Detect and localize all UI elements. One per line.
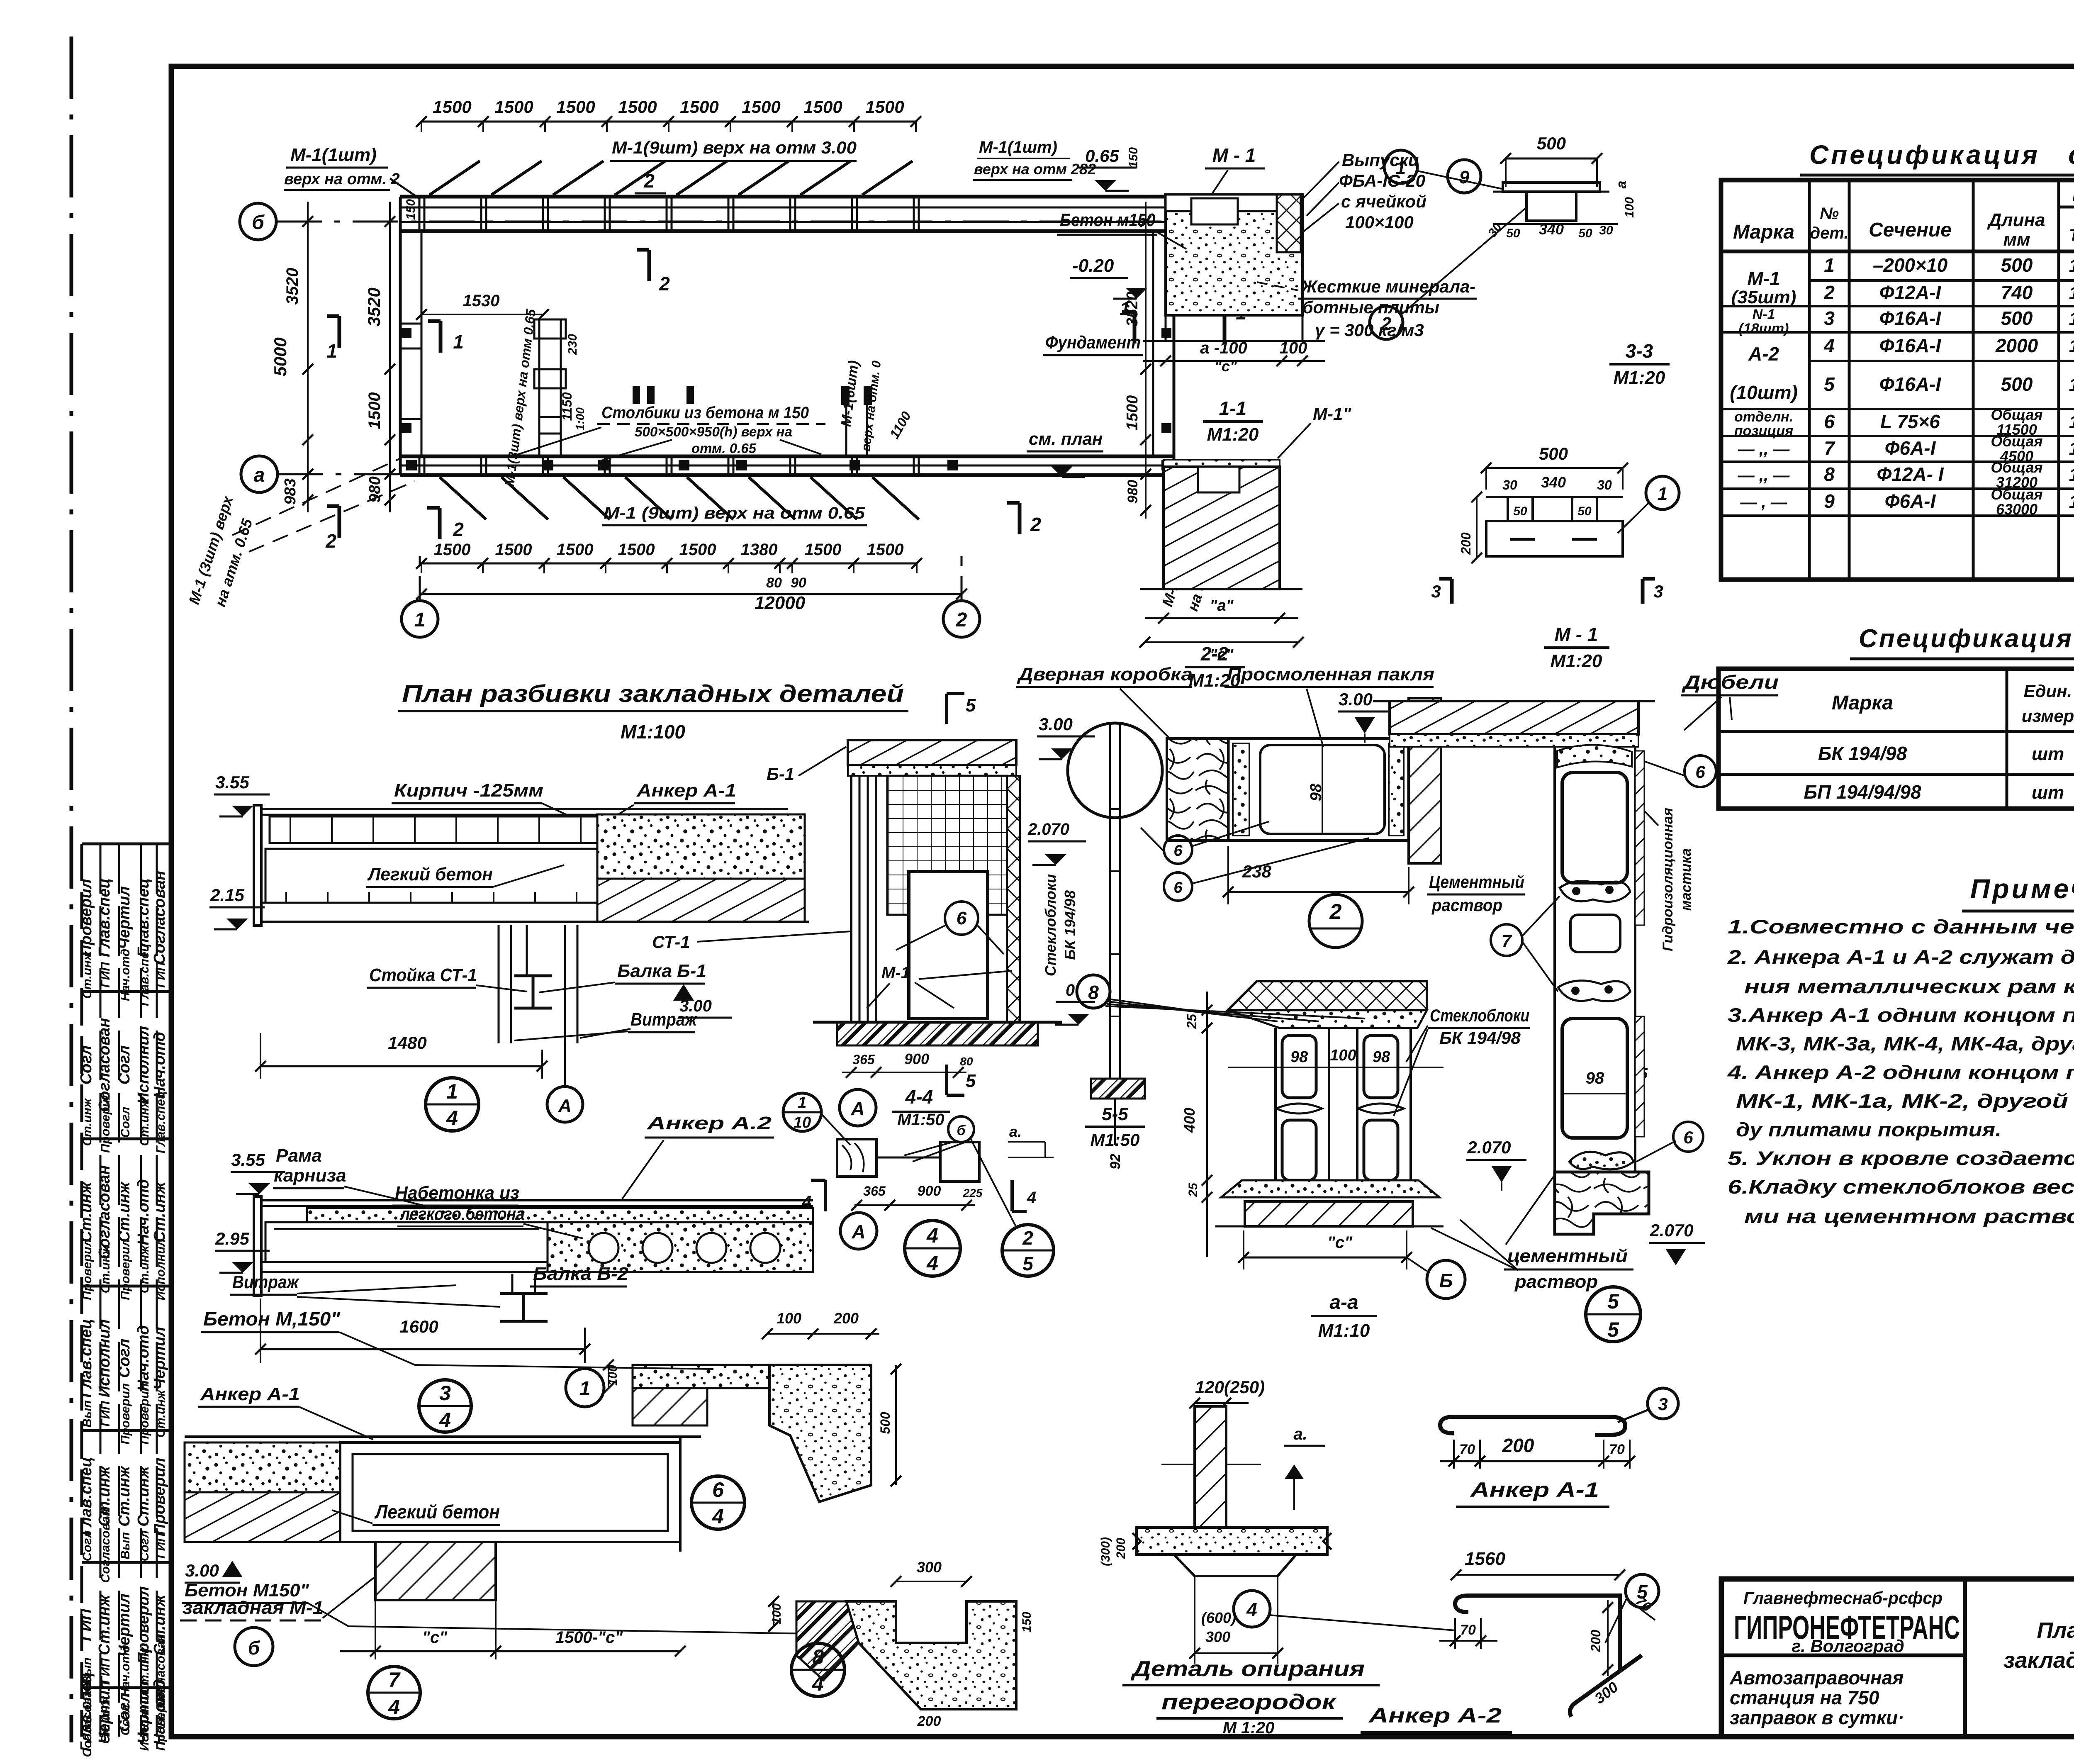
svg-text:Выпуски: Выпуски <box>1342 150 1419 170</box>
svg-text:3: 3 <box>439 1381 451 1405</box>
svg-text:а-а: а-а <box>1329 1291 1358 1313</box>
svg-text:2.95: 2.95 <box>215 1229 249 1248</box>
svg-text:6: 6 <box>1695 762 1705 782</box>
svg-text:Ф16А-I: Ф16А-I <box>1879 373 1942 395</box>
section 2-2 dims <box>1145 617 1298 619</box>
svg-text:70: 70 <box>1609 1442 1625 1457</box>
svg-text:1500: 1500 <box>495 541 532 559</box>
svg-text:80: 80 <box>960 1055 973 1068</box>
wall section: top slab <box>1390 701 1638 734</box>
anchor A-1: circle 3 <box>1648 1388 1678 1419</box>
circle pos 2 <box>1309 894 1362 948</box>
section 2-2 block <box>1164 460 1280 467</box>
svg-text:70: 70 <box>1460 1622 1476 1638</box>
svg-text:Длина: Длина <box>1986 210 2045 230</box>
svg-text:легкого бетона: легкого бетона <box>399 1204 525 1223</box>
section3: body <box>265 1222 548 1262</box>
svg-text:98: 98 <box>1373 1048 1390 1066</box>
svg-text:Общая: Общая <box>1991 433 2042 450</box>
svg-text:Ст.инж: Ст.инж <box>116 1181 133 1242</box>
svg-text:4: 4 <box>439 1408 451 1432</box>
detail M-1: foundation below <box>1165 315 1167 341</box>
svg-text:4: 4 <box>712 1505 724 1528</box>
svg-text:4: 4 <box>1027 1189 1036 1207</box>
svg-text:2.070: 2.070 <box>1649 1221 1693 1240</box>
section 4-4: plan fragment <box>837 1139 876 1177</box>
svg-text:225: 225 <box>963 1187 983 1199</box>
section 4-4: circle 6 <box>945 901 978 935</box>
svg-text:закладная М-1: закладная М-1 <box>183 1598 324 1618</box>
svg-text:1: 1 <box>1658 484 1667 504</box>
svg-text:740: 740 <box>2001 282 2033 303</box>
svg-text:М 1:20: М 1:20 <box>1223 1719 1275 1737</box>
svg-text:Един.: Един. <box>2024 681 2072 701</box>
svg-text:Ст.инж: Ст.инж <box>96 1594 113 1655</box>
svg-text:Анкер А-1: Анкер А-1 <box>636 780 736 801</box>
svg-text:98: 98 <box>1290 1048 1308 1066</box>
svg-text:1: 1 <box>326 340 337 362</box>
svg-text:Ст.инж: Ст.инж <box>99 1696 112 1744</box>
svg-text:ГИП: ГИП <box>99 1658 112 1684</box>
circle A bottom <box>840 1213 877 1249</box>
grid axis b <box>240 203 276 240</box>
svg-text:Дюбели: Дюбели <box>1681 671 1779 693</box>
svg-text:100: 100 <box>1623 197 1636 218</box>
svg-text:Ст.инж: Ст.инж <box>80 1098 94 1146</box>
svg-text:200: 200 <box>833 1310 859 1327</box>
svg-text:200: 200 <box>1114 1538 1128 1559</box>
svg-text:500: 500 <box>1537 134 1566 153</box>
svg-text:М1:20: М1:20 <box>1614 368 1665 388</box>
svg-text:Ст.инж: Ст.инж <box>138 1098 151 1146</box>
svg-text:а -100: а -100 <box>1200 339 1247 357</box>
svg-text:900: 900 <box>904 1050 929 1067</box>
svg-text:1: 1 <box>2069 256 2074 276</box>
section 4-4: flag 5 bottom <box>945 1065 948 1095</box>
svg-text:"а": "а" <box>1210 597 1234 614</box>
svg-text:А: А <box>558 1096 572 1116</box>
svg-text:Бетон М,150": Бетон М,150" <box>203 1308 341 1330</box>
svg-text:5: 5 <box>1607 1290 1619 1313</box>
wall section: mortar blob 2 <box>1560 881 1630 902</box>
svg-text:100: 100 <box>777 1310 801 1327</box>
wall section: small block <box>1570 915 1620 952</box>
section7: circle 7/4 <box>368 1667 420 1719</box>
svg-text:Примечания.: Примечания. <box>1970 873 2074 904</box>
svg-text:Ф16А-I: Ф16А-I <box>1879 335 1942 356</box>
plan: left wall <box>399 197 402 475</box>
svg-text:1.Совместно с данным чертеж: 1.Совместно с данным чертежом см. лист А… <box>1728 916 2074 938</box>
svg-text:Исполнил: Исполнил <box>154 1238 168 1300</box>
svg-text:Согл: Согл <box>80 1530 94 1561</box>
wall section: base rubble <box>1555 1172 1649 1234</box>
svg-text:Нач.отд: Нач.отд <box>151 1032 168 1098</box>
svg-text:Ст.инж: Ст.инж <box>99 1245 112 1294</box>
svg-text:1-1: 1-1 <box>1219 397 1246 419</box>
section1: circle 1/4 <box>426 1078 479 1131</box>
svg-text:150: 150 <box>1127 147 1140 168</box>
svg-text:98: 98 <box>1586 1069 1604 1087</box>
svg-text:1150: 1150 <box>560 392 574 421</box>
svg-text:0: 0 <box>1066 981 1075 999</box>
plan: section flags 1 and 2 <box>338 316 341 348</box>
detail M-1 plate: body <box>1486 496 1623 498</box>
svg-text:50: 50 <box>1513 504 1527 518</box>
wall section: block 1 <box>1562 772 1627 883</box>
svg-text:карниза: карниза <box>274 1165 346 1186</box>
svg-text:СТ-1: СТ-1 <box>652 932 690 952</box>
svg-text:1500: 1500 <box>365 392 384 429</box>
grid circle 2 <box>943 601 980 637</box>
svg-text:5-5: 5-5 <box>1102 1104 1128 1124</box>
anchor A-1: bar <box>1440 1417 1625 1435</box>
svg-text:2: 2 <box>1823 282 1835 303</box>
svg-text:БП 194/94/98: БП 194/94/98 <box>1804 781 1921 803</box>
svg-text:1: 1 <box>414 609 426 631</box>
plan: right wall <box>1173 197 1176 475</box>
svg-text:200: 200 <box>1588 1630 1603 1652</box>
svg-text:измер: измер <box>2022 706 2074 726</box>
svg-text:1530: 1530 <box>463 292 500 310</box>
door detail: lintel <box>1228 738 1409 841</box>
anchor A-2: circles 4 5 <box>1234 1591 1270 1627</box>
svg-text:6: 6 <box>1683 1128 1693 1147</box>
svg-text:ду плитами покрытия.: ду плитами покрытия. <box>1736 1118 2001 1140</box>
door detail: oakum strips <box>1233 743 1249 836</box>
svg-text:Ф12А- I: Ф12А- I <box>1877 463 1944 485</box>
svg-text:Рама: Рама <box>276 1145 322 1166</box>
partition detail: floor slab <box>1137 1528 1327 1554</box>
svg-text:4-4: 4-4 <box>905 1086 933 1108</box>
section 4-4: right strip <box>1007 776 1020 1022</box>
section7: pier below <box>375 1542 496 1600</box>
svg-text:30: 30 <box>1597 478 1612 492</box>
svg-text:1: 1 <box>2069 465 2074 485</box>
section 4-4: top slab <box>848 740 1016 765</box>
svg-text:1: 1 <box>579 1378 591 1400</box>
svg-text:4: 4 <box>926 1224 938 1247</box>
svg-text:4: 4 <box>812 1672 824 1695</box>
svg-text:3520: 3520 <box>283 268 302 305</box>
a-a: block columns <box>1276 1028 1329 1180</box>
svg-text:Ст.инж: Ст.инж <box>138 1245 151 1294</box>
svg-text:3.00: 3.00 <box>1039 714 1073 734</box>
svg-text:Чертил: Чертил <box>151 1327 168 1390</box>
svg-text:Балка Б-1: Балка Б-1 <box>617 961 706 981</box>
svg-text:3: 3 <box>1658 1394 1667 1414</box>
svg-text:ГИП: ГИП <box>99 962 112 988</box>
svg-text:7: 7 <box>388 1668 401 1691</box>
svg-text:100: 100 <box>1280 339 1307 357</box>
svg-text:50: 50 <box>1578 227 1592 240</box>
svg-text:2: 2 <box>1329 900 1342 924</box>
svg-text:5: 5 <box>1824 373 1835 395</box>
svg-text:300: 300 <box>1205 1628 1230 1645</box>
svg-text:983: 983 <box>282 478 299 504</box>
anchor A-2: dims <box>1454 1618 1456 1649</box>
svg-text:а: а <box>1614 181 1629 189</box>
wall section: circle 7 <box>1491 924 1522 956</box>
svg-text:заправок в сутки·: заправок в сутки· <box>1730 1707 1904 1728</box>
svg-text:3520: 3520 <box>1124 292 1141 327</box>
svg-text:М-1(1шт): М-1(1шт) <box>979 138 1057 156</box>
svg-text:— ,, —: — ,, — <box>1738 466 1790 485</box>
svg-text:Ф6А-I: Ф6А-I <box>1885 437 1936 459</box>
svg-text:Согласован: Согласован <box>99 1509 112 1583</box>
grid circle 1 <box>402 601 438 637</box>
svg-text:Проверил: Проверил <box>151 1458 168 1535</box>
svg-text:500: 500 <box>878 1412 893 1434</box>
svg-text:Ф6А-I: Ф6А-I <box>1885 490 1936 512</box>
svg-text:М-1: М-1 <box>1747 268 1780 289</box>
svg-text:1380: 1380 <box>741 541 778 559</box>
svg-text:Проверил: Проверил <box>99 1092 112 1153</box>
svg-text:М1:50: М1:50 <box>897 1111 944 1129</box>
svg-text:1: 1 <box>2069 309 2074 329</box>
svg-text:3-3: 3-3 <box>1626 340 1653 362</box>
section7: dims <box>375 1600 376 1659</box>
svg-text:Глав.спец: Глав.спец <box>78 1319 95 1398</box>
svg-text:1500: 1500 <box>803 97 842 117</box>
wall section: mortar top <box>1557 745 1632 767</box>
svg-text:Цементный: Цементный <box>1429 872 1524 892</box>
svg-text:25: 25 <box>1186 1182 1200 1197</box>
svg-text:перегородок: перегородок <box>1161 1690 1337 1714</box>
svg-text:1: 1 <box>2069 283 2074 303</box>
svg-text:Кирпич -125мм: Кирпич -125мм <box>394 780 543 801</box>
svg-text:План разбивки: План разбивки <box>2037 1618 2074 1643</box>
section 5-5: base <box>1091 1079 1145 1099</box>
svg-text:1: 1 <box>446 1080 458 1103</box>
svg-text:№: № <box>1820 205 1839 223</box>
svg-text:1:00: 1:00 <box>574 407 587 431</box>
svg-text:А: А <box>850 1098 864 1119</box>
svg-text:Проверил: Проверил <box>138 1383 151 1445</box>
section 4-4: dims below <box>842 1072 966 1073</box>
svg-text:3.55: 3.55 <box>231 1150 265 1170</box>
a-a: circle B <box>1427 1260 1465 1299</box>
svg-text:ГИП: ГИП <box>154 1533 168 1559</box>
svg-text:(10шт): (10шт) <box>1730 382 1798 403</box>
svg-text:1500: 1500 <box>867 541 904 559</box>
svg-text:5: 5 <box>1607 1318 1619 1341</box>
door detail: right wall block <box>1409 698 1441 863</box>
svg-text:50: 50 <box>1506 227 1520 240</box>
svg-text:М-1 (9шт) верх на отм 0.65: М-1 (9шт) верх на отм 0.65 <box>604 504 865 522</box>
svg-text:БК 194/98: БК 194/98 <box>1818 743 1907 764</box>
a-a: dim c <box>1244 1257 1407 1259</box>
svg-text:Глав.спец: Глав.спец <box>154 1091 168 1153</box>
svg-text:Согласован: Согласован <box>80 1683 94 1757</box>
plan: interior column 1 <box>538 319 540 456</box>
svg-text:4: 4 <box>1823 335 1835 356</box>
svg-text:а: а <box>254 464 265 486</box>
svg-text:Бетон м150: Бетон м150 <box>1060 210 1155 230</box>
svg-text:30: 30 <box>1599 224 1613 237</box>
svg-text:Ст.инж: Ст.инж <box>135 1465 152 1526</box>
partition detail: wall stub <box>1195 1406 1226 1528</box>
svg-text:Ст.инж: Ст.инж <box>116 1465 133 1526</box>
svg-text:2: 2 <box>453 519 464 540</box>
svg-text:5000: 5000 <box>270 337 290 376</box>
svg-text:3.00: 3.00 <box>1339 690 1373 709</box>
section3: top slab <box>260 1199 813 1201</box>
svg-text:ния металлических рам карни: ния металлических рам карниза. <box>1744 975 2074 997</box>
svg-text:6: 6 <box>712 1478 724 1501</box>
svg-text:92: 92 <box>1108 1154 1123 1170</box>
svg-text:с ячейкой: с ячейкой <box>1341 192 1426 211</box>
svg-text:Согласован: Согласован <box>151 871 168 965</box>
svg-text:4: 4 <box>1246 1599 1257 1620</box>
svg-text:1500: 1500 <box>1124 395 1141 431</box>
title block frame <box>1721 1579 2074 1737</box>
a-a: bottom slab <box>1245 1201 1413 1226</box>
svg-text:Вып: Вып <box>80 1400 94 1428</box>
svg-text:Марка: Марка <box>1733 221 1794 243</box>
svg-text:1500: 1500 <box>865 97 904 117</box>
svg-text:Сечение: Сечение <box>1869 219 1952 241</box>
axis circle b small <box>948 1116 974 1142</box>
section7: slab <box>185 1435 701 1438</box>
svg-text:980: 980 <box>1125 480 1141 504</box>
svg-text:2-2: 2-2 <box>1200 643 1229 665</box>
svg-text:1: 1 <box>1396 158 1406 178</box>
svg-text:(18шт): (18шт) <box>1739 321 1789 336</box>
footing 6/4: circle <box>691 1476 745 1529</box>
svg-text:Фундамент: Фундамент <box>1045 332 1141 353</box>
svg-text:Спецификация: Спецификация <box>1809 140 2040 170</box>
svg-text:Столбики из бетона м 150: Столбики из бетона м 150 <box>601 404 809 422</box>
svg-text:верх на отм 282: верх на отм 282 <box>974 161 1096 178</box>
plan: top wall band <box>400 195 1174 199</box>
svg-text:А: А <box>851 1221 865 1243</box>
svg-text:9: 9 <box>1824 490 1835 512</box>
svg-text:Согл: Согл <box>78 1045 95 1085</box>
svg-text:500: 500 <box>2001 373 2033 395</box>
svg-text:1500: 1500 <box>557 541 594 559</box>
section1: posts under slab <box>498 925 500 1043</box>
circle 4/4 <box>905 1221 960 1276</box>
section7: circle b <box>235 1628 273 1666</box>
svg-text:1500: 1500 <box>618 97 657 117</box>
svg-text:шт: шт <box>2032 782 2064 803</box>
svg-text:МК-3, МК-3а, МК-4, МК-4а, дру: МК-3, МК-3а, МК-4, МК-4а, другим к петле… <box>1736 1033 2074 1055</box>
svg-text:3.55: 3.55 <box>215 772 249 792</box>
svg-text:4: 4 <box>926 1252 938 1275</box>
svg-text:5: 5 <box>1637 1581 1648 1603</box>
plan: interior column 2 <box>845 386 847 456</box>
svg-text:Согласован: Согласован <box>96 1165 113 1260</box>
svg-text:М1:50: М1:50 <box>1090 1130 1139 1150</box>
svg-text:Исполнил: Исполнил <box>96 1319 113 1397</box>
svg-text:L 75×6: L 75×6 <box>1880 411 1940 432</box>
svg-text:дет.: дет. <box>1810 224 1848 242</box>
svg-text:4. Анкер А-2 одним концом: 4. Анкер А-2 одним концом приварить к ра… <box>1727 1061 2074 1083</box>
svg-text:1500: 1500 <box>679 541 716 559</box>
svg-text:БК 194/98: БК 194/98 <box>1061 890 1078 960</box>
anchor A-2: bar <box>1455 1596 1620 1717</box>
a-a: top slab crosshatch <box>1228 981 1427 1010</box>
svg-text:М1:20: М1:20 <box>1207 424 1259 445</box>
svg-text:Анкер А-1: Анкер А-1 <box>1469 1478 1599 1501</box>
svg-text:500: 500 <box>2001 254 2033 276</box>
svg-text:9: 9 <box>1459 167 1470 188</box>
svg-text:Гидроизоляционная: Гидроизоляционная <box>1660 808 1676 951</box>
plan: bottom dim rows <box>421 563 917 565</box>
svg-text:1: 1 <box>1824 254 1835 276</box>
svg-text:4: 4 <box>388 1696 400 1719</box>
anchor A-1: dims <box>1440 1460 1630 1462</box>
svg-text:100: 100 <box>770 1603 784 1624</box>
svg-text:2: 2 <box>325 530 336 552</box>
svg-text:М-1": М-1" <box>1313 404 1351 424</box>
svg-text:2: 2 <box>1030 514 1041 535</box>
svg-text:Бетон М150": Бетон М150" <box>185 1580 309 1601</box>
svg-text:1500: 1500 <box>433 97 471 117</box>
svg-text:"с": "с" <box>422 1628 448 1647</box>
svg-text:Анкер А-1: Анкер А-1 <box>200 1384 300 1404</box>
svg-text:мм: мм <box>2003 229 2030 250</box>
svg-text:25: 25 <box>1184 1014 1199 1029</box>
svg-text:Проверил: Проверил <box>80 1239 94 1300</box>
svg-text:Деталь опирания: Деталь опирания <box>1130 1657 1365 1681</box>
svg-text:Общая: Общая <box>1991 406 2042 423</box>
svg-text:Ст.инж: Ст.инж <box>154 1389 168 1438</box>
svg-text:6.Кладку стеклоблоков вести: 6.Кладку стеклоблоков вести горизонтальн… <box>1728 1176 2074 1198</box>
svg-text:Глав.спец: Глав.спец <box>78 1457 95 1536</box>
svg-text:1: 1 <box>2069 492 2074 512</box>
svg-text:1500: 1500 <box>618 541 655 559</box>
svg-text:150: 150 <box>404 199 418 220</box>
svg-text:1600: 1600 <box>399 1317 438 1336</box>
svg-text:Автозаправочная: Автозаправочная <box>1729 1667 1904 1688</box>
svg-text:365: 365 <box>863 1184 886 1199</box>
detail M-1 plate: circle 1 <box>1646 476 1679 509</box>
svg-text:3.Анкер А-1 одним концом п: 3.Анкер А-1 одним концом приварить к рам… <box>1728 1004 2074 1026</box>
svg-text:1: 1 <box>2069 439 2074 459</box>
svg-text:А-2: А-2 <box>1748 343 1779 365</box>
svg-text:Просмоленная пакля: Просмоленная пакля <box>1227 664 1434 685</box>
svg-text:стали: стали <box>2068 140 2074 170</box>
section 4-4: door leaf <box>909 872 988 1018</box>
svg-text:Витраж: Витраж <box>232 1272 299 1292</box>
svg-text:б: б <box>957 1123 966 1138</box>
svg-text:6: 6 <box>1824 411 1835 432</box>
plan: small plate pairs <box>633 386 640 404</box>
svg-text:см. план: см. план <box>1029 429 1103 448</box>
section 4-4: fragment dims <box>854 1204 975 1206</box>
section 4-4: circles row <box>783 1093 821 1131</box>
svg-text:230: 230 <box>566 334 579 355</box>
svg-text:Марка: Марка <box>1832 692 1893 714</box>
section3: circle 3/4 <box>419 1380 471 1432</box>
section 4-4: flag 5 top <box>945 694 948 724</box>
svg-text:План разбивки закладных дета: План разбивки закладных деталей <box>402 680 904 707</box>
svg-text:100: 100 <box>1330 1047 1356 1064</box>
svg-text:5: 5 <box>966 695 976 716</box>
svg-text:500×500×950(h) верх на: 500×500×950(h) верх на <box>635 424 792 439</box>
svg-text:Согл: Согл <box>116 1339 133 1378</box>
detail M-1: circle 9 <box>1448 160 1481 193</box>
svg-text:Согл: Согл <box>138 1530 151 1561</box>
svg-text:шт: шт <box>2032 744 2064 764</box>
svg-text:Стойка СТ-1: Стойка СТ-1 <box>369 965 477 985</box>
circle 5/5 <box>1586 1287 1641 1342</box>
svg-text:"с": "с" <box>1215 358 1237 375</box>
svg-text:Нач.отд: Нач.отд <box>135 1325 152 1391</box>
svg-text:N-1: N-1 <box>1753 307 1775 322</box>
svg-text:ми на цементном растворе м: ми на цементном растворе марки 50 <box>1744 1205 2074 1227</box>
